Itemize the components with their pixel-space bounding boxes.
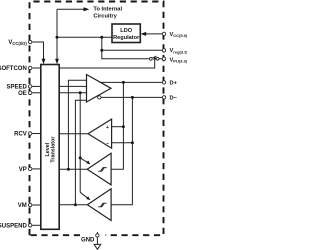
pin D- label xyxy=(170,95,178,101)
wire SUSPEND left xyxy=(32,224,41,226)
wire VM gate diagonal xyxy=(80,192,88,198)
arrow VP gate xyxy=(86,160,90,164)
LDO regulator label xyxy=(113,28,140,41)
wire Vreg branch vertical xyxy=(102,37,149,59)
node A: LDO output rail vertical xyxy=(56,9,58,61)
svg-text:Translator: Translator xyxy=(51,136,57,163)
wire VCC(I/O) to translator top xyxy=(32,42,43,61)
wire VP left xyxy=(32,168,41,170)
wire SOFTCON left xyxy=(32,67,41,69)
junction VP gate branch xyxy=(79,156,82,159)
single-ended receiver U6 (VM) xyxy=(87,189,111,221)
wire OE control vertical xyxy=(79,93,81,193)
junction U4 plus input xyxy=(122,125,125,128)
wire D+ rail xyxy=(111,82,123,169)
pin SPEED label xyxy=(6,84,27,90)
pin GND xyxy=(96,234,99,237)
arrow LDO rail into translator xyxy=(55,59,59,64)
wire VCC(5.0) to LDO xyxy=(146,33,163,35)
pin VCC(5.0) label xyxy=(170,32,188,38)
single-ended receiver U5 (VP) xyxy=(87,153,111,185)
arrow VCC(5.0) into LDO xyxy=(141,32,147,36)
svg-text:SPEED: SPEED xyxy=(6,84,27,90)
wire enable corner net xyxy=(75,100,86,205)
U6 hysteresis symbol xyxy=(98,203,106,207)
pin D- xyxy=(162,96,165,99)
svg-text:Regulator: Regulator xyxy=(113,35,140,41)
svg-text:GND: GND xyxy=(81,238,95,244)
arrow SOFTCON switch control xyxy=(153,56,157,59)
svg-text:VPU(3.3): VPU(3.3) xyxy=(170,58,188,64)
wire GND stub xyxy=(96,232,98,244)
wire D- xyxy=(101,96,162,98)
pin VM label xyxy=(18,203,27,209)
U5 hysteresis symbol xyxy=(98,168,106,172)
svg-text:VM: VM xyxy=(18,203,27,209)
pin Vreg(3.3) label xyxy=(170,48,189,54)
switch S1 softcon contacts xyxy=(149,57,152,60)
wire U4 plus input stub xyxy=(112,126,124,128)
pin SUSPEND xyxy=(29,224,32,227)
svg-text:SOFTCON: SOFTCON xyxy=(0,66,27,72)
pin OE xyxy=(29,91,32,94)
device boundary (dashed IC outline) xyxy=(30,2,164,236)
U4 minus input mark xyxy=(106,141,109,147)
label To Internal Circuitry xyxy=(93,7,122,20)
junction VP line xyxy=(67,168,70,171)
wire VP gate diagonal xyxy=(80,158,88,163)
svg-text:+: + xyxy=(106,125,109,131)
wire U4 minus input stub xyxy=(112,142,133,144)
wire driver input 1 corner xyxy=(68,80,86,169)
wire D+ xyxy=(100,81,163,83)
pin VCC(I/O) label xyxy=(8,40,27,46)
wire SOFTCON to switch xyxy=(59,60,155,68)
wire VM left xyxy=(32,204,41,206)
driver enable bubble xyxy=(98,96,101,99)
LDO regulator U2 box xyxy=(112,24,140,43)
junction OE control branch xyxy=(79,91,82,94)
svg-text:LDO: LDO xyxy=(120,28,132,34)
wire RCV left xyxy=(32,133,41,135)
pin VCC(5.0) xyxy=(162,32,165,35)
pin SOFTCON xyxy=(29,66,32,69)
svg-text:VP: VP xyxy=(19,167,27,173)
svg-text:Circuitry: Circuitry xyxy=(93,13,117,19)
pin SPEED xyxy=(29,85,32,88)
pin D+ xyxy=(162,81,165,84)
svg-text:D−: D− xyxy=(170,95,178,101)
wire to internal circuitry xyxy=(57,8,85,10)
pin VP xyxy=(29,167,32,170)
junction U4 minus input xyxy=(131,141,134,144)
wire RCV output xyxy=(59,133,88,135)
pin VCC(I/O) xyxy=(29,40,32,43)
junction D+ rail xyxy=(122,81,125,84)
pin RCV label xyxy=(14,132,27,138)
wire Vreg pin xyxy=(102,49,162,51)
pin SUSPEND label xyxy=(0,223,27,229)
junction D- rail xyxy=(131,96,134,99)
svg-text:RCV: RCV xyxy=(14,132,27,138)
wire node A to LDO left xyxy=(57,36,112,38)
level translator U1 box xyxy=(41,65,59,230)
junction VM line xyxy=(74,203,77,206)
pin VPU(3.3) xyxy=(162,57,165,60)
GND label xyxy=(81,238,95,244)
svg-text:SUSPEND: SUSPEND xyxy=(0,223,27,229)
pin VPU(3.3) label xyxy=(170,58,188,64)
wire VM output xyxy=(59,204,87,206)
pin D+ label xyxy=(170,80,178,86)
U4 plus input mark xyxy=(106,125,109,131)
wire OE to driver xyxy=(59,92,86,94)
switch S1 lever xyxy=(152,56,156,58)
wire SPEED to driver xyxy=(59,85,86,87)
level translator label xyxy=(45,136,56,163)
pin OE label xyxy=(18,91,27,97)
junction Vreg pin branch xyxy=(100,49,103,52)
svg-text:−: − xyxy=(106,141,109,147)
svg-text:To Internal: To Internal xyxy=(93,7,122,13)
arrow to internal circuitry xyxy=(84,7,90,11)
pin VM xyxy=(29,203,32,206)
wire VPU pin stub xyxy=(159,58,162,60)
arrow VM gate xyxy=(86,196,90,200)
svg-text:VCC(I/O): VCC(I/O) xyxy=(8,40,27,46)
junction node A xyxy=(56,36,59,39)
junction Vreg branch xyxy=(100,36,103,39)
driver U3 output buffer triangle xyxy=(87,75,112,103)
pin RCV xyxy=(29,132,32,135)
wire D- rail xyxy=(111,97,132,204)
svg-text:OE: OE xyxy=(18,91,27,97)
pin Vreg(3.3) xyxy=(162,49,165,52)
differential receiver U4 xyxy=(88,119,112,148)
arrow VCC(I/O) into translator xyxy=(42,59,46,64)
wire VP output xyxy=(59,168,87,170)
pin SOFTCON label xyxy=(0,66,27,72)
ground arrow symbol xyxy=(94,244,101,249)
svg-text:D+: D+ xyxy=(170,80,178,86)
pin VP label xyxy=(19,167,27,173)
wire OE left xyxy=(32,92,41,94)
wire SPEED left xyxy=(32,85,41,87)
svg-text:VCC(5.0): VCC(5.0) xyxy=(170,32,188,38)
svg-text:Vreg(3.3): Vreg(3.3) xyxy=(170,48,188,54)
